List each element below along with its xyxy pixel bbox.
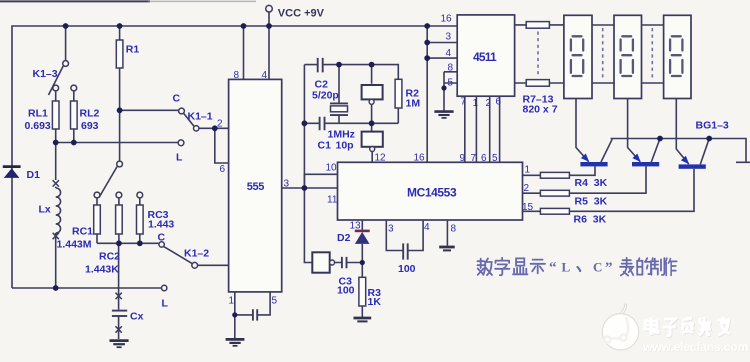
svg-text:7: 7 (461, 97, 467, 108)
svg-text:C: C (158, 232, 166, 244)
svg-text:3: 3 (388, 224, 394, 235)
svg-text:16: 16 (414, 153, 426, 164)
svg-text:4511: 4511 (473, 50, 497, 64)
svg-text:K1–3: K1–3 (33, 68, 58, 80)
svg-text:RL2: RL2 (80, 108, 100, 120)
svg-text:555: 555 (247, 181, 264, 193)
svg-text:K1–2: K1–2 (184, 248, 209, 260)
svg-text:VCC +9V: VCC +9V (278, 7, 325, 19)
svg-text:L: L (562, 260, 571, 275)
svg-text:Cx: Cx (130, 311, 144, 323)
svg-text:5: 5 (492, 153, 498, 164)
svg-text:2: 2 (217, 119, 223, 130)
svg-text:R4 3K: R4 3K (575, 177, 608, 189)
svg-text:5/20p: 5/20p (312, 90, 339, 102)
svg-text:RC2: RC2 (99, 251, 120, 263)
svg-text:6: 6 (496, 97, 502, 108)
svg-text:L: L (162, 298, 169, 310)
svg-text:C: C (173, 93, 181, 105)
svg-text:K1–1: K1–1 (188, 111, 213, 123)
svg-text:D1: D1 (27, 169, 41, 181)
svg-text:0.693: 0.693 (25, 120, 51, 132)
svg-text:1: 1 (525, 165, 531, 176)
svg-text:12: 12 (375, 153, 387, 164)
svg-text:100: 100 (337, 285, 355, 297)
svg-text:2: 2 (524, 183, 530, 194)
svg-text:4: 4 (262, 70, 268, 81)
svg-text:11: 11 (327, 195, 338, 206)
svg-text:1.443: 1.443 (148, 219, 174, 231)
svg-text:3: 3 (284, 179, 290, 190)
svg-text:www.elecfans.com: www.elecfans.com (642, 340, 749, 354)
svg-text:1.443K: 1.443K (85, 264, 119, 276)
svg-text:16: 16 (441, 14, 453, 25)
svg-text:2: 2 (486, 98, 492, 109)
svg-text:R5 3K: R5 3K (575, 196, 608, 208)
svg-text:L: L (176, 152, 183, 164)
svg-text:6: 6 (481, 153, 487, 164)
svg-text:5: 5 (448, 78, 454, 89)
svg-text:RL1: RL1 (28, 108, 48, 120)
svg-text:5: 5 (272, 296, 278, 307)
svg-text:8: 8 (448, 63, 454, 74)
svg-text:8: 8 (451, 224, 457, 235)
svg-text:693: 693 (81, 120, 99, 132)
svg-text:1K: 1K (368, 296, 382, 308)
svg-text:“: “ (549, 260, 557, 276)
svg-text:RC1: RC1 (72, 226, 93, 238)
svg-text:820 x 7: 820 x 7 (523, 104, 558, 116)
svg-text:6: 6 (220, 164, 226, 175)
svg-text:1.443M: 1.443M (57, 239, 92, 251)
svg-text:MC14553: MC14553 (407, 186, 457, 200)
svg-text:1M: 1M (406, 98, 421, 110)
svg-text:Lx: Lx (39, 204, 51, 216)
svg-text:3: 3 (446, 32, 452, 43)
svg-text:R1: R1 (126, 44, 140, 56)
svg-text:100: 100 (398, 263, 416, 275)
svg-text:1: 1 (473, 98, 479, 109)
svg-text:R6 3K: R6 3K (574, 214, 607, 226)
svg-text:1: 1 (229, 296, 235, 307)
svg-text:8: 8 (234, 70, 240, 81)
svg-text:10: 10 (326, 163, 338, 174)
svg-text:C: C (593, 260, 602, 275)
svg-text:13: 13 (350, 221, 362, 232)
svg-text:C1: C1 (318, 140, 332, 152)
svg-text:9: 9 (460, 153, 466, 164)
svg-text:15: 15 (522, 202, 534, 213)
svg-text:BG1–3: BG1–3 (696, 120, 729, 132)
svg-text:4: 4 (424, 222, 430, 233)
svg-text:D2: D2 (337, 232, 351, 244)
svg-text:4: 4 (446, 48, 452, 59)
svg-text:7: 7 (471, 153, 477, 164)
svg-text:10p: 10p (336, 140, 354, 152)
svg-text:”: ” (605, 260, 613, 276)
